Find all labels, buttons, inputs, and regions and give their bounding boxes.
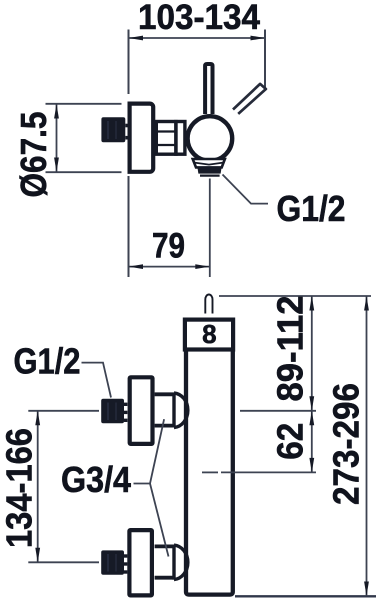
- arrowhead up 273-296: [364, 296, 369, 311]
- extension line bottom of flange for dia 67.5: [46, 171, 122, 173]
- extension line top (y=296): [219, 295, 371, 297]
- lever handle (up position): [205, 64, 212, 114]
- knob stub lower: [125, 136, 128, 140]
- aerator collar inner line: [195, 163, 224, 165]
- pipe inner line lower: [155, 144, 175, 146]
- dimension line 79: [129, 266, 210, 268]
- leader G3/4 horizontal: [134, 483, 151, 485]
- wall knob (side view, black): [101, 117, 125, 142]
- lower connector line bottom: [155, 576, 174, 580]
- knob stub upper: [125, 124, 128, 128]
- extension line 62 bottom main: [221, 471, 316, 473]
- svg-text:62: 62: [270, 423, 311, 460]
- valve body circle: [188, 116, 233, 161]
- upper nut thread dashes: [124, 403, 127, 406]
- arrowhead down 134-166: [35, 548, 40, 563]
- arrowhead down dia67.5: [54, 158, 59, 173]
- dimension line 103-134: [129, 37, 266, 39]
- lower connector D-piece: [174, 545, 188, 580]
- upper connector line bottom: [155, 424, 174, 428]
- dimension line 273-296: [366, 296, 368, 596]
- lower nut knurl highlights: [107, 554, 109, 572]
- upper inlet escutcheon: [130, 377, 153, 444]
- extension line right x=265: [264, 30, 266, 88]
- body top cap: [185, 320, 233, 350]
- arrowhead up dia67.5: [54, 104, 59, 119]
- leader G3/4 down branch: [150, 484, 169, 557]
- upper connector line top: [155, 392, 174, 396]
- bottom extension line to right edge: [235, 595, 376, 597]
- extension line 62 bottom (centre line) dash: [202, 471, 218, 473]
- upper nut knurl highlights: [107, 403, 109, 421]
- dimension line 89-112 and 62: [311, 296, 313, 472]
- svg-text:273-296: 273-296: [326, 383, 367, 505]
- extension line top of flange for dia 67.5: [46, 103, 122, 105]
- svg-text:Ø67.5: Ø67.5: [13, 112, 54, 198]
- arrowhead right 79: [195, 264, 210, 269]
- aerator black band: [197, 167, 221, 173]
- pipe inner line upper: [155, 130, 175, 132]
- arrowhead down 62: [309, 458, 314, 473]
- dimension line 134-166: [37, 411, 39, 563]
- svg-text:79: 79: [152, 226, 185, 265]
- arrowhead right of 103-134: [251, 36, 266, 41]
- arrowhead down 89-112: [309, 396, 314, 411]
- leader G3/4 up branch: [150, 419, 164, 483]
- leader G1/2 (front view): [82, 363, 112, 398]
- svg-text:103-134: 103-134: [138, 0, 261, 37]
- arrowhead left of 103-134: [129, 36, 144, 41]
- svg-text:134-166: 134-166: [0, 428, 40, 548]
- aerator bottom lip: [200, 175, 220, 177]
- arrowhead left 79: [129, 264, 144, 269]
- arrowhead up 134-166: [35, 411, 40, 426]
- svg-text:G3/4: G3/4: [61, 459, 131, 500]
- leader line to G1/2 (top view): [223, 175, 269, 204]
- wall flange (side view, rounded right corners): [130, 104, 154, 172]
- arrowhead up 62: [309, 411, 314, 426]
- extension line 134-166 top: [28, 410, 99, 412]
- arrowhead up 89-112: [309, 296, 314, 311]
- lower inlet escutcheon: [129, 530, 152, 595]
- dimension line dia 67.5: [56, 104, 58, 172]
- lever handle (45 deg position): [233, 84, 266, 114]
- svg-text:8: 8: [202, 319, 216, 349]
- extension line 89-112 bottom / 62 top (right side): [240, 410, 316, 412]
- extension line 134-166 bottom: [28, 561, 99, 563]
- svg-text:G1/2: G1/2: [277, 188, 346, 229]
- upper connector D-piece: [174, 393, 188, 428]
- connecting pipe outer: [156, 122, 185, 155]
- top port tube: [205, 295, 212, 314]
- extension line left x=128.5 lower (to 79 dim): [128, 176, 130, 277]
- upper inlet nut (black): [101, 399, 124, 423]
- svg-text:G1/2: G1/2: [14, 341, 81, 382]
- centerline below aerator (79 right extension): [209, 179, 211, 278]
- lower nut thread dashes: [124, 554, 127, 557]
- lower connector line top: [155, 545, 174, 549]
- body outline: [186, 352, 233, 595]
- aerator collar: [193, 159, 225, 167]
- svg-text:89-112: 89-112: [270, 296, 311, 402]
- lower inlet nut (black): [101, 550, 124, 574]
- knob knurl highlights: [107, 121, 109, 139]
- arrowhead down 273-296: [364, 582, 369, 597]
- pipe ring divider: [174, 120, 178, 156]
- extension line left x=128.5 upper: [128, 30, 130, 95]
